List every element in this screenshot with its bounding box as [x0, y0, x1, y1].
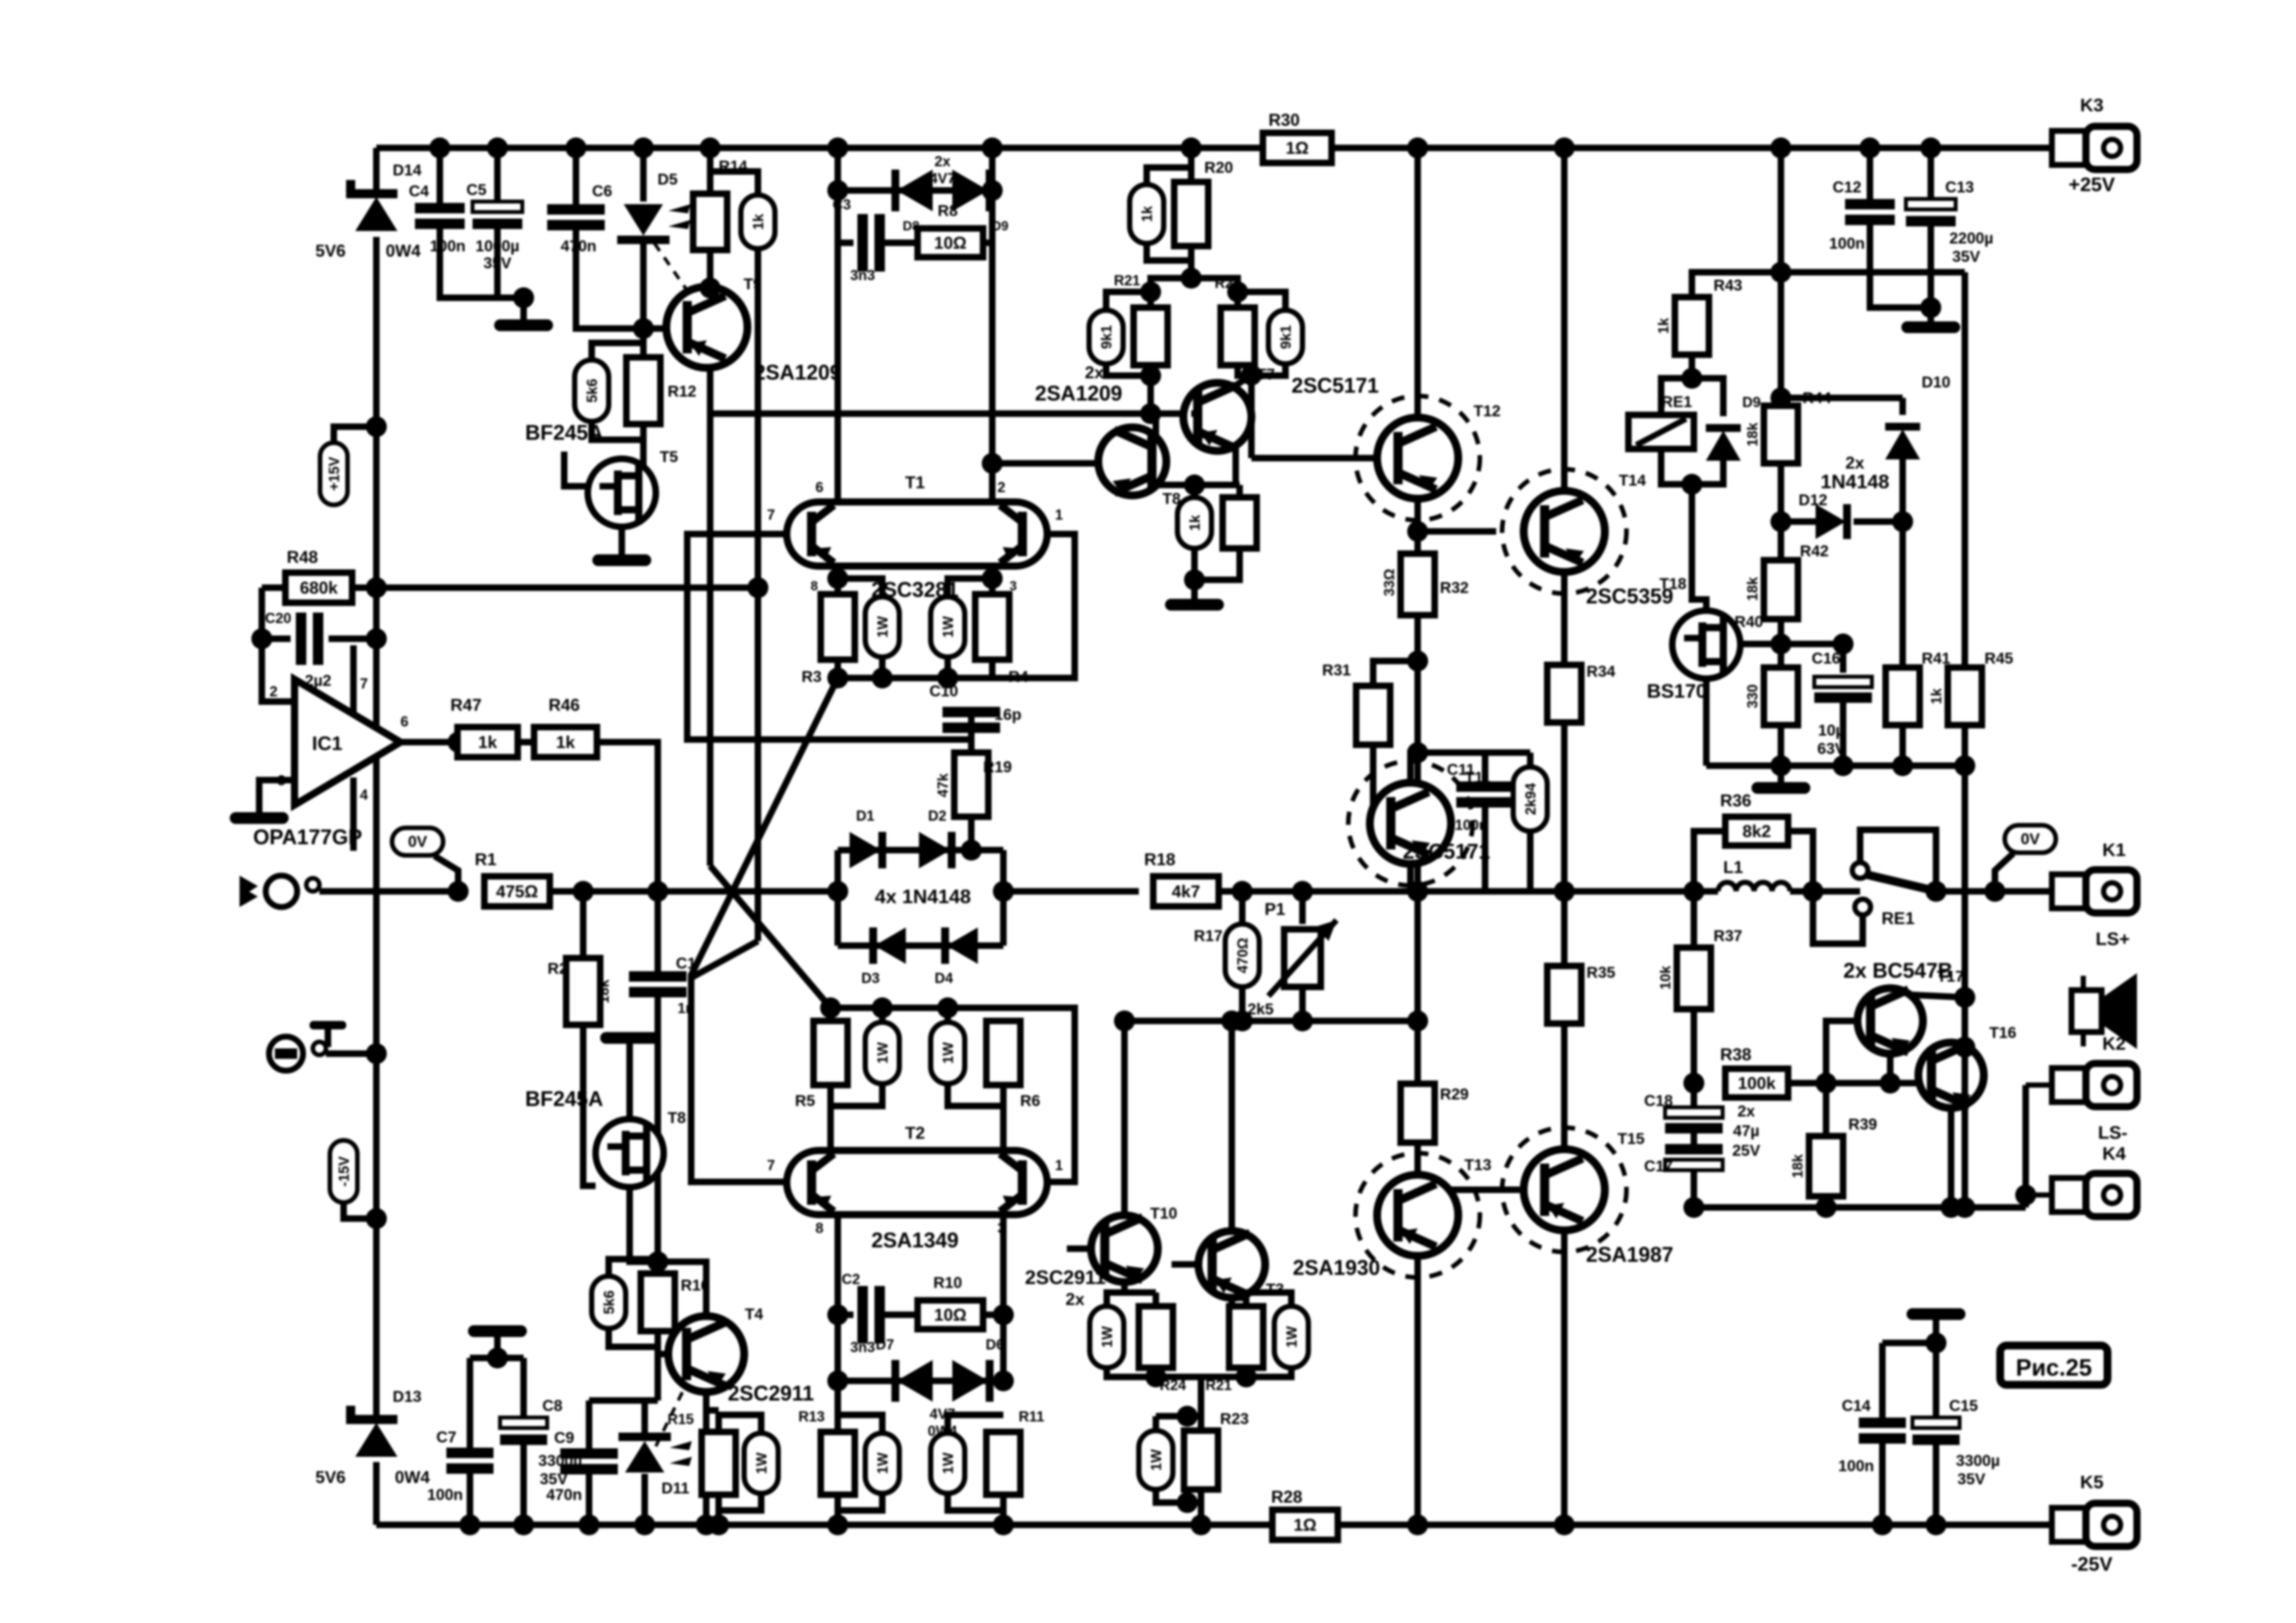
transistor T17 — [1857, 988, 1923, 1054]
node bus T3 — [1236, 1366, 1257, 1387]
node T18 gate tap — [1770, 633, 1791, 654]
resistor R20 pill — [1130, 185, 1164, 243]
wire C15 down — [1933, 1445, 1939, 1525]
wire R35 to T15 — [1561, 1024, 1568, 1148]
capacitor C8 — [500, 1418, 547, 1445]
capacitor C3 — [857, 214, 885, 272]
label R20 — [1204, 159, 1233, 177]
svg-text:RE1: RE1 — [1662, 393, 1693, 411]
svg-text:R12: R12 — [668, 383, 696, 401]
wire +15V hook — [334, 427, 376, 442]
svg-text:R11: R11 — [1018, 1408, 1044, 1425]
wire T2 pin bl — [834, 1215, 841, 1315]
wire R20 to split — [1188, 246, 1194, 278]
svg-text:+15V: +15V — [326, 457, 342, 491]
connector K3 — [2026, 126, 2137, 169]
svg-text:2x: 2x — [1738, 1103, 1755, 1120]
transistor T16 — [1918, 1043, 1984, 1108]
label R28 — [1271, 1487, 1302, 1507]
label C6 — [592, 183, 613, 200]
svg-text:2SA1930: 2SA1930 — [1293, 1256, 1380, 1279]
wire R12 bottom to T5 region — [622, 424, 643, 473]
label R8 — [938, 202, 958, 220]
resistor R8 — [918, 228, 983, 257]
svg-text:T5: T5 — [660, 448, 678, 466]
wire y1560 bus — [1124, 1018, 1418, 1024]
node input 0V — [448, 881, 469, 902]
node C2 left — [827, 1304, 848, 1325]
transistor T3 — [1198, 1231, 1265, 1298]
svg-text:D6: D6 — [986, 1336, 1004, 1353]
label T11 — [1465, 769, 1491, 787]
node D10 D12 — [1892, 511, 1913, 532]
wire pill R12 top hook — [592, 343, 643, 360]
label R47 — [450, 695, 482, 715]
wire R16 pill top hook — [609, 1259, 658, 1276]
wire 0V right hook — [1995, 853, 2013, 891]
resistor R16 box — [641, 1274, 675, 1331]
value 1000u — [475, 238, 519, 255]
svg-text:C7: C7 — [437, 1429, 457, 1446]
svg-text:2x: 2x — [1066, 1289, 1085, 1309]
value 35V — [484, 255, 512, 272]
resistor R28 — [1272, 1510, 1338, 1540]
svg-text:3n3: 3n3 — [850, 1339, 875, 1355]
label R23 — [1220, 1410, 1249, 1428]
value 47u — [1733, 1122, 1760, 1140]
flag +15V — [320, 443, 348, 505]
wire R39 stem — [1823, 1083, 1829, 1136]
node bl gnd — [487, 1347, 508, 1368]
wire C17 mid — [1691, 1133, 1697, 1144]
wire T10 collector up — [1121, 1021, 1128, 1215]
svg-text:1k: 1k — [1655, 317, 1672, 334]
node R45 y1170 — [1954, 755, 1975, 776]
value 100n C14 — [1839, 1457, 1874, 1475]
node T15 rail — [1554, 1514, 1575, 1535]
value 100n C7 — [427, 1486, 463, 1504]
label RE1 — [1882, 908, 1915, 928]
svg-text:3: 3 — [997, 1220, 1005, 1236]
pill under T1 right — [931, 597, 965, 657]
wire relay diode branch — [1692, 378, 1723, 416]
value 18k — [596, 979, 612, 1003]
transistor T14 — [1524, 491, 1605, 572]
label R24 — [1160, 1377, 1187, 1393]
wire T11 collector — [1410, 753, 1418, 783]
wire R22 pill top — [1238, 292, 1285, 310]
resistor R29 — [1401, 1084, 1435, 1143]
wire split left — [1151, 278, 1191, 308]
svg-text:R10: R10 — [933, 1274, 962, 1292]
wire relay left branch — [1661, 378, 1692, 415]
wire main output line — [1418, 888, 1718, 895]
label C17 — [1644, 1158, 1673, 1175]
wire C11 bus top — [1418, 749, 1530, 756]
wire pill hook T2b — [944, 1008, 951, 1022]
value 10u — [1818, 722, 1845, 740]
label T8b — [1162, 490, 1181, 508]
resistor R36 — [1725, 817, 1788, 846]
label D12 — [1799, 491, 1827, 509]
wire T8 source down — [630, 1187, 658, 1262]
wire diag pill col to corner — [691, 941, 758, 978]
node T1b hook — [982, 568, 1003, 589]
node bus T10 — [1145, 1366, 1166, 1387]
transistor T15 — [1524, 1149, 1605, 1230]
svg-text:R3: R3 — [802, 668, 822, 686]
node opamp out — [448, 732, 469, 753]
svg-text:33Ω: 33Ω — [1381, 569, 1397, 596]
label R6 — [1020, 1092, 1041, 1110]
svg-text:K2: K2 — [2102, 1033, 2126, 1054]
wire pill T2a down — [831, 1084, 882, 1106]
wire y608 to D10 — [1781, 395, 1903, 401]
wire R45 down — [1962, 725, 1968, 766]
diode D1 — [850, 832, 886, 868]
wire rowA left stem — [834, 1381, 841, 1432]
value 2x — [1738, 1103, 1755, 1120]
node L1 right — [1803, 881, 1823, 902]
svg-text:8: 8 — [816, 1220, 823, 1236]
node rail C12 — [1859, 137, 1880, 158]
wire T15 base line — [1418, 1186, 1520, 1193]
resistor R37 — [1677, 948, 1711, 1009]
svg-text:D4: D4 — [935, 970, 954, 986]
pill R23 — [1139, 1431, 1173, 1489]
wire C3 branch left — [838, 190, 853, 243]
label R39 — [1848, 1116, 1877, 1133]
wire R23 pill stem — [1153, 1416, 1159, 1431]
wire T9 collector column — [707, 368, 713, 414]
label 1N4148b — [1820, 471, 1889, 493]
label C11 — [1447, 761, 1475, 779]
wire C1 down — [655, 997, 661, 1262]
wire C12 down — [1870, 225, 1931, 308]
resistor R22 box — [1221, 308, 1255, 365]
node rail T14 — [1554, 137, 1575, 158]
svg-text:R2: R2 — [548, 960, 568, 978]
resistor R21 pill — [1089, 310, 1123, 364]
wire R38 right — [1788, 1080, 1924, 1086]
label R17 — [1194, 927, 1223, 945]
wire T7 collector down — [1232, 448, 1239, 485]
wire R5 to T2 — [827, 1085, 834, 1149]
capacitor C15 — [1912, 1418, 1960, 1445]
dual transistor T2 2SA1349 — [787, 1150, 1047, 1215]
node R43 tap — [1770, 262, 1791, 283]
wire split right — [1191, 278, 1238, 308]
svg-text:IC1: IC1 — [312, 733, 343, 755]
wire R16 pill bottom hook — [609, 1329, 658, 1347]
wire T4 pair stem — [706, 1407, 719, 1414]
svg-text:2SC2911: 2SC2911 — [728, 1382, 814, 1405]
node top rail C6 — [565, 137, 586, 158]
wire horizontal to T7 base — [710, 410, 1191, 417]
node x3002 y1845 — [1954, 1197, 1975, 1218]
node gnd C13 — [1920, 297, 1941, 318]
resistor R43 — [1675, 297, 1709, 355]
node T16 emit y1845 — [1941, 1197, 1962, 1218]
node output R34 — [1554, 881, 1575, 902]
wire rowA pill hook top — [838, 1415, 882, 1433]
svg-text:L1: L1 — [1723, 857, 1743, 877]
svg-text:35V: 35V — [540, 1471, 568, 1488]
capacitor C1 — [629, 971, 687, 997]
wire T17 collector — [1909, 995, 1965, 997]
capacitor C5 — [473, 202, 522, 229]
node K4 tap — [2015, 1185, 2036, 1205]
wire C15 col — [1933, 1343, 1939, 1418]
diode D2 — [919, 832, 956, 868]
wire T3 pair stem — [1229, 1298, 1235, 1306]
node T16 coll — [1954, 1037, 1975, 1058]
wire R1 to node — [550, 888, 838, 895]
label R35 — [1587, 964, 1615, 982]
wire gnd stem br — [1933, 1319, 1939, 1343]
svg-text:C2: C2 — [842, 1271, 860, 1287]
wire D10 col down — [1899, 522, 1906, 668]
resistor R31 — [1356, 686, 1390, 745]
node C9 rail — [579, 1514, 600, 1535]
wire bus drop — [1198, 1377, 1204, 1416]
wire C16 down — [1840, 703, 1846, 766]
node y632 R21 tap — [1140, 403, 1161, 424]
label RE1 coil — [1662, 393, 1693, 411]
svg-text:1W: 1W — [874, 1452, 891, 1474]
label K5 — [2080, 1472, 2104, 1492]
svg-text:R45: R45 — [1984, 650, 2013, 668]
value 2k5 — [1247, 1001, 1274, 1018]
svg-text:2k94: 2k94 — [1522, 783, 1539, 815]
transistor T5 BF245A — [588, 459, 656, 527]
node contact out — [1926, 881, 1946, 902]
pin T2 r — [1055, 1157, 1063, 1173]
dashed ring T13 — [1355, 1153, 1480, 1277]
label T2 — [905, 1123, 925, 1143]
label C16 — [1812, 650, 1840, 668]
wire main to R35 — [1561, 891, 1568, 966]
resistor R45 — [1948, 668, 1982, 725]
node R21 hook — [1140, 281, 1161, 302]
node rowA rail r — [993, 1514, 1014, 1535]
node C14 rail — [1872, 1514, 1893, 1535]
svg-text:OPA177GP: OPA177GP — [253, 825, 363, 849]
pin 7 — [360, 675, 368, 692]
svg-text:4x 1N4148: 4x 1N4148 — [875, 886, 971, 908]
wire after L1 — [1790, 888, 1860, 895]
node R38 left — [1683, 1073, 1704, 1094]
relay contact RE1 — [1852, 830, 1943, 915]
value 470n C9 — [547, 1486, 583, 1504]
svg-text:RE1: RE1 — [1882, 908, 1915, 928]
node main x2166 — [1407, 881, 1428, 902]
wire T12 base line — [1251, 455, 1377, 461]
svg-text:1N4148: 1N4148 — [1820, 471, 1889, 493]
label 2SC2911 left — [728, 1382, 814, 1405]
pin3 T2 — [997, 1220, 1005, 1236]
wire rail to T1 pin6 — [834, 148, 841, 500]
wire pill hook T1b — [948, 579, 992, 597]
node R39 tap — [1816, 1073, 1837, 1094]
svg-text:BS170: BS170 — [1647, 681, 1707, 702]
wire R29 to T13 — [1414, 1143, 1421, 1175]
label C10 — [929, 683, 958, 700]
wire x2721 from rail — [1778, 148, 1784, 406]
pin 6 — [401, 713, 408, 730]
pill rowA b — [865, 1433, 899, 1493]
svg-text:T18: T18 — [1659, 575, 1686, 593]
value 100n C4 — [430, 238, 466, 255]
svg-text:R23: R23 — [1220, 1410, 1249, 1428]
resistor T10 box — [1139, 1306, 1173, 1368]
wire T14 emitter down — [1561, 572, 1568, 665]
label 2SA1209 — [754, 361, 841, 384]
wire C7 down — [467, 1474, 473, 1525]
wire R42 down — [1778, 619, 1784, 668]
pill rowA c — [931, 1433, 965, 1493]
node lug x575 — [366, 1043, 387, 1064]
svg-text:1k: 1k — [556, 732, 575, 752]
svg-text:6: 6 — [816, 479, 823, 495]
wire diagonal2 from VAS — [710, 866, 831, 1008]
capacitor C17 — [1665, 1144, 1723, 1170]
svg-text:R48: R48 — [287, 547, 318, 567]
wire feedback top — [262, 584, 285, 591]
label IC1 — [312, 733, 343, 755]
wire D12 line — [1781, 518, 1817, 525]
svg-text:10k: 10k — [1657, 965, 1674, 990]
wire R34 down to main — [1561, 722, 1568, 891]
wire C8 down — [520, 1445, 527, 1525]
svg-text:4k7: 4k7 — [1172, 882, 1200, 901]
node rail R20 — [1181, 137, 1202, 158]
node 0V right — [1984, 881, 2005, 902]
svg-text:C17: C17 — [1644, 1158, 1673, 1175]
resistor R22 pill — [1268, 310, 1302, 364]
pill T10 pair — [1090, 1306, 1124, 1368]
label 2SA1930 — [1293, 1256, 1380, 1279]
label 5V6 — [315, 241, 346, 260]
node C15 rail — [1926, 1514, 1946, 1535]
wire pairs bottom bus — [1107, 1368, 1246, 1377]
svg-text:5k6: 5k6 — [601, 1291, 617, 1315]
wire y1170 bus — [1706, 762, 1965, 769]
label R42 — [1800, 543, 1829, 560]
wire zener D13 to bottom rail — [373, 1462, 380, 1525]
resistor R40 — [1764, 668, 1798, 725]
svg-text:BF245A: BF245A — [525, 421, 603, 444]
wire C6 stem — [573, 148, 579, 205]
wire R21 pill top — [1106, 292, 1151, 310]
resistor R41 — [1886, 668, 1920, 725]
ground symbol bottom right — [1907, 1308, 1965, 1320]
svg-text:3300µ: 3300µ — [1956, 1452, 2000, 1470]
wire R32 down — [1414, 615, 1421, 891]
wire bl gnd stem — [494, 1336, 501, 1358]
wire thermal dashed D11-T4 — [656, 1380, 689, 1446]
zener D13 — [346, 1406, 397, 1457]
wire rail to R14 — [707, 148, 713, 194]
node C7 rail — [459, 1514, 480, 1535]
wire R43 to relay — [1689, 355, 1695, 378]
label -25V — [2071, 1554, 2112, 1575]
wire R20 pill bottom — [1147, 243, 1191, 260]
wire bridge bottom — [838, 942, 1003, 949]
diode D6 — [952, 1360, 994, 1402]
wire pill R14 top hook — [710, 171, 758, 195]
svg-text:R35: R35 — [1587, 964, 1615, 982]
wire R37 stem — [1691, 891, 1697, 948]
node top rail C5 — [487, 137, 508, 158]
wire T17 base — [1826, 1021, 1859, 1083]
wire C2 branch — [838, 1311, 853, 1318]
label C15 — [1949, 1397, 1978, 1415]
resistor R20 box — [1174, 182, 1208, 246]
wire R14 bottom to T9 — [707, 250, 713, 288]
svg-text:5V6: 5V6 — [315, 241, 346, 260]
wire contact to K1 — [1936, 888, 2053, 895]
value 2u2 — [305, 672, 332, 690]
svg-text:T12: T12 — [1473, 402, 1500, 420]
transistor T18 BS170 — [1672, 611, 1740, 679]
value 3n3 C3 — [850, 267, 875, 283]
label R38 — [1720, 1044, 1751, 1064]
wire emitter bus under T1 — [838, 660, 992, 678]
wire bias box top — [1236, 485, 1243, 497]
svg-text:R30: R30 — [1268, 110, 1300, 130]
wire lower pair verticals — [834, 1315, 841, 1381]
svg-text:R21: R21 — [1206, 1377, 1232, 1393]
wire bl gnd bus — [470, 1355, 524, 1361]
resistor R46 — [534, 727, 597, 757]
svg-text:47k: 47k — [935, 773, 951, 797]
wire -25V bottom rail left section — [376, 1522, 1272, 1528]
svg-text:1k: 1k — [1139, 205, 1155, 222]
pin 2 — [270, 683, 278, 700]
node T14 base tap — [1407, 521, 1428, 542]
svg-text:2: 2 — [270, 683, 278, 700]
svg-text:LS+: LS+ — [2096, 929, 2130, 949]
wire pin2 feedback — [262, 588, 295, 702]
node y1560 P1 — [1292, 1010, 1313, 1031]
wire C4 stem — [437, 148, 443, 204]
svg-text:Рис.25: Рис.25 — [2016, 1354, 2092, 1381]
svg-text:R31: R31 — [1322, 662, 1351, 679]
label T8 — [668, 1109, 686, 1127]
svg-text:T8: T8 — [668, 1109, 686, 1127]
node rowA rail l — [827, 1514, 848, 1535]
wire bus above T2 — [831, 1005, 1003, 1011]
label D11 — [662, 1480, 690, 1497]
value 33 — [1381, 569, 1397, 596]
node R23 top — [1177, 1406, 1198, 1427]
label R4 — [1009, 668, 1029, 686]
value 47k — [935, 773, 951, 797]
svg-text:100k: 100k — [1738, 1073, 1776, 1093]
label LS+ — [2096, 929, 2130, 949]
node C16 y1170 — [1833, 755, 1854, 776]
ground symbol above T8 — [600, 1032, 659, 1044]
svg-text:D7: D7 — [876, 1336, 894, 1353]
svg-text:C18: C18 — [1644, 1092, 1673, 1110]
value 0W4 lower — [927, 1423, 958, 1439]
node L1 left — [1683, 881, 1704, 902]
dashed ring T15 — [1502, 1128, 1626, 1252]
transistor T10 — [1091, 1215, 1158, 1282]
wire bridge right vertical — [1000, 850, 1007, 946]
connector K4 — [2026, 1173, 2137, 1217]
